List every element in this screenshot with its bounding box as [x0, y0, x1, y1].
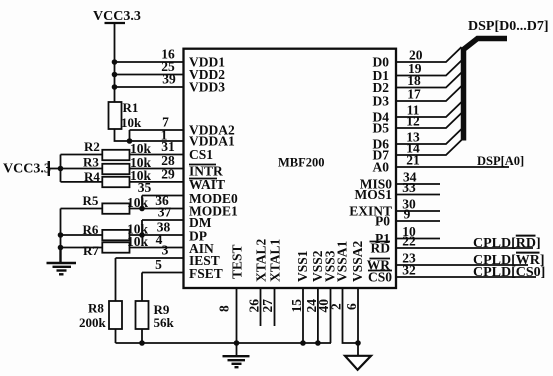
- svg-text:D3: D3: [373, 94, 390, 109]
- svg-text:P0: P0: [375, 214, 390, 229]
- svg-text:CS1: CS1: [189, 147, 213, 162]
- pin name INTR (active low): [189, 164, 223, 179]
- svg-text:2: 2: [329, 303, 344, 310]
- power terminal VCC3.3 (left): [3, 161, 61, 177]
- svg-text:MBF200: MBF200: [278, 156, 325, 170]
- wire D2 pin18: [397, 73, 462, 88]
- svg-text:21: 21: [406, 153, 420, 168]
- svg-text:17: 17: [407, 87, 421, 102]
- svg-text:R8: R8: [88, 301, 104, 316]
- junction VDD3: [112, 84, 118, 90]
- svg-text:37: 37: [158, 205, 172, 220]
- resistor R1 10k: [109, 100, 143, 130]
- svg-text:9: 9: [404, 207, 411, 222]
- wire WAIT pin29: [130, 181, 184, 183]
- wire D6 pin13: [397, 129, 462, 144]
- svg-text:FSET: FSET: [189, 266, 223, 281]
- wire FSET pin5: [142, 272, 184, 274]
- svg-text:3: 3: [162, 243, 169, 258]
- junction VDD2: [112, 72, 118, 78]
- wire VSSA1 pin2: [343, 288, 359, 343]
- svg-text:31: 31: [161, 139, 175, 154]
- wire VSSA2 pin6: [357, 288, 359, 355]
- resistor R2 10k: [61, 139, 130, 160]
- wire FSET down to R9: [141, 273, 143, 302]
- pin name CS0 (active low): [368, 270, 392, 285]
- resistor R3 10k: [61, 155, 130, 175]
- junction VDDA1: [127, 138, 133, 144]
- wire CS0 pin32 to CPLD[CS0]: [397, 265, 545, 280]
- resistor R8 200k: [79, 301, 122, 331]
- bus DSP[D0...D7]: [464, 19, 549, 141]
- svg-text:R6: R6: [83, 222, 99, 237]
- wire AIN pin4: [130, 247, 184, 249]
- svg-text:R5: R5: [83, 193, 99, 208]
- svg-text:XTAL2: XTAL2: [254, 238, 269, 282]
- wire pullup bus vertical: [60, 155, 62, 182]
- resistor R7 10k: [61, 242, 130, 258]
- resistor R5 10k: [61, 193, 130, 214]
- junction TEST ground: [234, 340, 240, 346]
- svg-text:R4: R4: [84, 169, 100, 184]
- wire TEST pin8: [236, 288, 238, 355]
- svg-text:33: 33: [402, 180, 416, 195]
- wire MODE0 tie down: [141, 196, 143, 209]
- svg-text:32: 32: [402, 263, 416, 278]
- junction MODE1: [139, 206, 145, 212]
- power terminal VCC3.3 (top): [93, 9, 141, 102]
- svg-text:CS0: CS0: [368, 270, 392, 285]
- svg-text:6: 6: [344, 303, 359, 310]
- svg-text:VCC3.3: VCC3.3: [3, 162, 51, 177]
- svg-text:10k: 10k: [130, 141, 152, 156]
- svg-text:VCC3.3: VCC3.3: [93, 9, 141, 24]
- pin name RD (active low): [370, 241, 391, 256]
- wire pin7 VDDA2: [130, 129, 184, 131]
- svg-text:A0: A0: [373, 160, 390, 175]
- wire VSS2 pin24: [317, 288, 319, 343]
- wire R8 to ground rail: [115, 329, 117, 343]
- svg-text:10k: 10k: [121, 115, 142, 130]
- svg-text:22: 22: [402, 234, 416, 249]
- ground (center, earth): [223, 356, 250, 367]
- wire DM pin37: [142, 219, 184, 221]
- wire INTR pin28: [130, 168, 184, 170]
- wire D7 pin14: [397, 140, 462, 155]
- wire pulldown bus vertical: [60, 209, 62, 262]
- pin name WAIT (active low): [189, 177, 225, 192]
- svg-text:39: 39: [162, 72, 176, 87]
- junction DP row: [58, 232, 64, 238]
- wire R9 to ground rail: [141, 329, 143, 343]
- svg-text:8: 8: [217, 305, 232, 312]
- wire D4 pin11: [397, 102, 462, 117]
- wire MODE1 pin36: [130, 208, 184, 210]
- wire IEST pin3: [116, 257, 184, 259]
- svg-text:XTAL1: XTAL1: [268, 238, 283, 282]
- wire XTAL1 pin27 stub: [274, 288, 276, 326]
- junction VCC left: [58, 166, 64, 172]
- svg-text:27: 27: [260, 299, 275, 313]
- svg-text:MOS1: MOS1: [354, 187, 392, 202]
- svg-text:VSSA2: VSSA2: [350, 240, 365, 282]
- wire pin16 VDD1: [115, 61, 184, 63]
- junction AIN row: [58, 245, 64, 251]
- wire DM tie down: [141, 220, 143, 235]
- wire XTAL2 pin26 stub: [260, 288, 262, 326]
- wire WR pin23 to CPLD[WR]: [397, 253, 545, 268]
- wire MODE0 pin35: [142, 195, 184, 197]
- svg-text:DSP[A0]: DSP[A0]: [477, 154, 524, 168]
- svg-text:VDD3: VDD3: [189, 80, 225, 95]
- resistor R4 10k: [61, 169, 130, 187]
- wire CS1 pin31: [130, 154, 184, 156]
- pin name WR (active low): [367, 258, 391, 273]
- junction DP: [139, 232, 145, 238]
- wire P0 pin9 stub: [397, 220, 440, 222]
- svg-text:VSSA1: VSSA1: [335, 240, 350, 282]
- svg-text:D5: D5: [373, 121, 390, 136]
- svg-text:CPLD[RD]: CPLD[RD]: [473, 236, 541, 251]
- svg-text:200k: 200k: [79, 315, 107, 330]
- junction VDD1: [112, 59, 118, 65]
- wire DP pin38: [130, 234, 184, 236]
- wire VSS3 pin40: [330, 288, 332, 343]
- wire digital ground rail: [116, 342, 332, 344]
- svg-text:TEST: TEST: [230, 244, 245, 279]
- svg-text:R2: R2: [84, 139, 100, 154]
- wire MIS0 pin34 stub: [397, 183, 440, 185]
- wire RD pin22 to CPLD[RD]: [397, 236, 541, 251]
- svg-text:56k: 56k: [154, 315, 175, 330]
- svg-text:10k: 10k: [127, 195, 149, 210]
- IC U1 MBF200 body: [184, 49, 397, 288]
- wire EXINT pin30 stub: [397, 210, 440, 212]
- wire D3 pin17: [397, 86, 462, 101]
- svg-text:15: 15: [289, 299, 304, 313]
- wire A0 pin21 to DSP[A0]: [397, 154, 524, 168]
- wire pin25 VDD2: [115, 74, 184, 76]
- junction VSS2 ground: [315, 340, 321, 346]
- wire D5 pin12: [397, 113, 462, 128]
- svg-text:R3: R3: [83, 155, 99, 170]
- svg-text:CPLD[CS0]: CPLD[CS0]: [473, 265, 545, 280]
- svg-text:12: 12: [406, 114, 420, 129]
- svg-text:29: 29: [161, 166, 175, 181]
- svg-text:5: 5: [155, 257, 162, 272]
- wire VDDA2 tie: [129, 130, 131, 141]
- svg-text:10k: 10k: [130, 168, 152, 183]
- svg-text:VSS1: VSS1: [295, 250, 310, 282]
- svg-text:DSP[D0...D7]: DSP[D0...D7]: [468, 19, 549, 34]
- junction R9 ground: [139, 340, 145, 346]
- svg-text:R7: R7: [83, 243, 99, 258]
- wire pin39 VDD3: [115, 86, 184, 88]
- wire P1 pin10 stub: [397, 238, 440, 240]
- ground (analog, triangle): [345, 356, 371, 370]
- wire IEST down to R8: [115, 258, 117, 301]
- wire VSS1 pin15: [302, 288, 304, 343]
- svg-text:R1: R1: [123, 100, 139, 115]
- junction VSSA: [355, 340, 361, 346]
- svg-text:RD: RD: [371, 241, 391, 256]
- svg-text:10k: 10k: [127, 234, 149, 249]
- resistor R9 56k: [136, 301, 175, 330]
- ground (left, earth): [47, 248, 77, 275]
- wire D1 pin19: [397, 61, 462, 76]
- wire MOS1 pin33 stub: [397, 194, 440, 196]
- wire D0 pin20: [397, 47, 462, 62]
- resistor R6 10k: [61, 222, 130, 240]
- junction VSS1 ground: [300, 340, 306, 346]
- wire R1 to VDDA1: [115, 129, 184, 141]
